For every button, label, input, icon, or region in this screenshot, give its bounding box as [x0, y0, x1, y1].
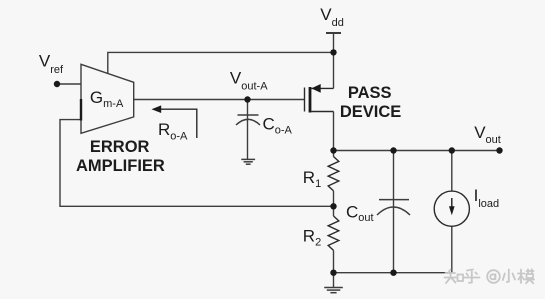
wire Vref stub [57, 83, 81, 85]
wire top feedback from amp top to Vdd line [108, 52, 334, 73]
wire feedback loop left [60, 120, 334, 207]
junction dot bottom-R2 [330, 270, 336, 276]
ground (main) [324, 288, 343, 293]
wire top rail [334, 150, 500, 152]
channel bar [309, 87, 312, 113]
capacitor C o-A [236, 115, 260, 125]
svg-text:ERROR: ERROR [90, 138, 150, 156]
drain wire [311, 111, 333, 113]
小 [507, 270, 509, 283]
node Vout terminal dot [496, 147, 502, 153]
transistor Q1 PMOS pass device [305, 84, 334, 113]
wire amp output to gate [134, 99, 305, 101]
resistor R1 [328, 157, 339, 191]
wire Co-A branch down to ground [247, 100, 249, 160]
wire Iload bottom [451, 226, 453, 273]
svg-text:DEVICE: DEVICE [340, 103, 401, 121]
wire R2 bottom to bottom rail [333, 250, 335, 272]
svg-text:AMPLIFIER: AMPLIFIER [76, 157, 165, 175]
node feedback junction dot [330, 203, 336, 209]
gate bar [304, 88, 306, 112]
junction dot Vdd [330, 49, 336, 55]
wire Cout branch [393, 151, 395, 273]
wire drain to rail [333, 112, 335, 151]
wire node to R2 top [333, 206, 335, 216]
@ [487, 270, 500, 283]
wire bottom rail [334, 272, 452, 274]
junction dot rail-Iload [449, 147, 455, 153]
junction dot rail-Cout [390, 147, 396, 153]
node Vref terminal dot [54, 81, 60, 87]
node Vout-A dot [244, 96, 250, 102]
wire R1 bottom lead to node [333, 191, 335, 206]
source arrow [311, 84, 320, 93]
wire ground lead main [333, 273, 335, 288]
svg-text:PASS: PASS [348, 84, 392, 102]
Ro-A arrow [160, 109, 197, 138]
source wire [311, 87, 333, 89]
junction dot rail-drain [330, 147, 336, 153]
op-amp U1 error amplifier (Gm trapezoid) [81, 64, 134, 133]
resistor R2 [328, 216, 339, 250]
Iload arrow [451, 198, 453, 209]
current source Iload [434, 191, 469, 226]
wire Vdd vertical [333, 33, 335, 88]
ground (C o-A) [241, 159, 255, 164]
模 [520, 270, 522, 284]
capacitor Cout [377, 200, 410, 215]
junction dot bottom-Cout [390, 270, 396, 276]
wire Iload top [451, 151, 453, 192]
Vdd supply bar [326, 32, 341, 34]
乎 [467, 270, 473, 271]
watermark 知乎 @小模 [445, 269, 535, 283]
op-amp left edge thick segment [80, 99, 82, 121]
知 [448, 270, 451, 274]
wire R1 top lead [333, 151, 335, 157]
